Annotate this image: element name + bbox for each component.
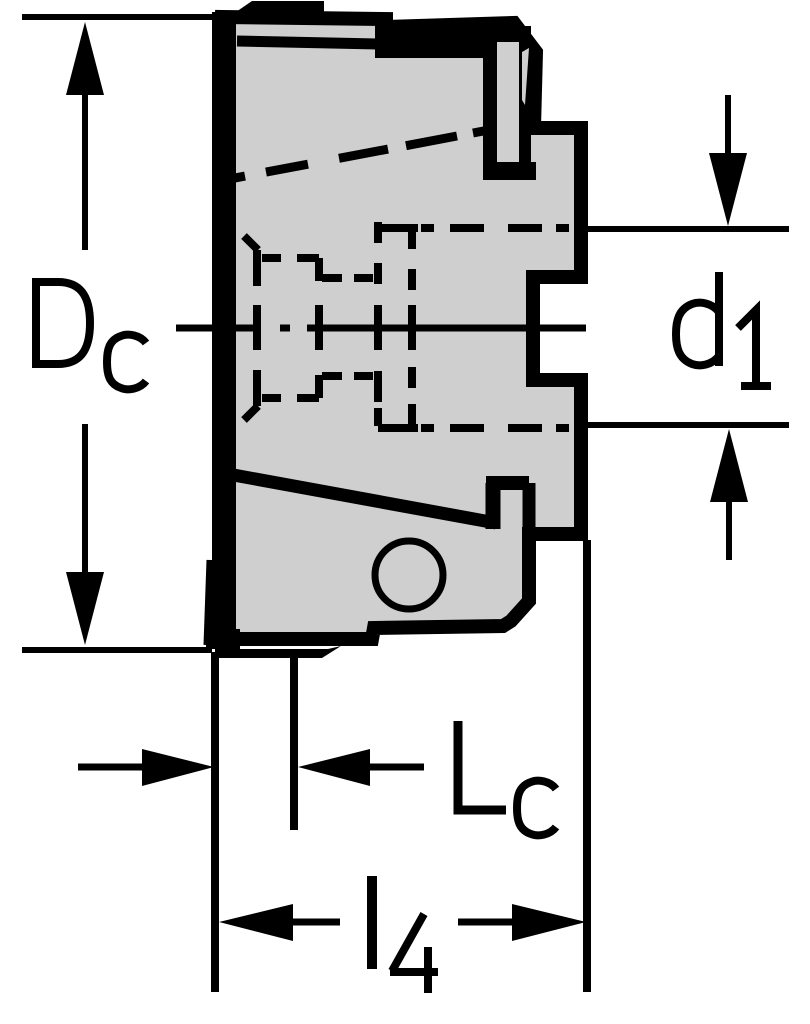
cap gray sliver bbox=[522, 48, 529, 105]
cutter body outline (gray silhouette) bbox=[220, 17, 581, 639]
hidden bore: horiz y398 bbox=[262, 394, 319, 402]
top-right block (solid black above slot) bbox=[375, 22, 497, 58]
Lc dimension line right part with arrow bbox=[364, 764, 424, 771]
hidden bore: horiz y228 bbox=[378, 224, 569, 232]
slot top close bbox=[495, 24, 519, 42]
hidden bore: horiz y258 bbox=[262, 254, 319, 262]
insert tab: top bbox=[486, 476, 529, 490]
centerline left segment bbox=[176, 325, 256, 332]
hidden bore: vertical x412 bbox=[408, 228, 416, 427]
d1 arrow up (below lower line) bbox=[726, 500, 732, 560]
insert tab: right wall (continues as lower right edge) bbox=[523, 483, 536, 538]
hidden bore: vertical x257 bbox=[253, 250, 261, 406]
Dc dimension vertical line upper bbox=[82, 90, 88, 250]
centerline dot bbox=[280, 325, 290, 332]
hidden bore: horiz y425 bbox=[378, 424, 569, 432]
Dc dimension vertical line lower bbox=[82, 424, 88, 580]
insert strip protruding below bottom edge bbox=[215, 646, 341, 658]
label Dc bbox=[32, 282, 146, 389]
hidden line: long dashed slant bbox=[225, 130, 489, 180]
slot interior gray strip bbox=[497, 42, 519, 159]
Dc top dimension line bbox=[22, 14, 213, 20]
label d1 bbox=[676, 272, 771, 386]
gash slanted line bbox=[228, 474, 496, 523]
insert tab: left wall bbox=[486, 483, 501, 529]
hidden bore: chamfer dash upper bbox=[244, 236, 258, 250]
d1 arrow down (above upper line) bbox=[725, 95, 731, 160]
slot bottom bbox=[483, 162, 536, 180]
hidden bore: horiz y376 bbox=[322, 372, 373, 380]
hidden bore: chamfer dash lower bbox=[244, 406, 258, 420]
hidden bore: vertical x378 bbox=[374, 222, 382, 426]
Lc dimension line left part with arrow bbox=[78, 764, 146, 771]
Dc arrow down bbox=[66, 572, 104, 645]
l4 dimension line right part with arrow bbox=[458, 919, 514, 926]
extension line right (x586) bbox=[583, 540, 591, 992]
top second edge line bbox=[237, 41, 378, 44]
extension line middle (x294) bbox=[290, 658, 298, 830]
l4 dimension line left part with arrow bbox=[290, 919, 340, 926]
extension line left (x218) bbox=[211, 652, 219, 992]
label Lc bbox=[458, 721, 556, 835]
screw hole circle bbox=[375, 541, 443, 609]
slot right wall / cap left bbox=[519, 26, 531, 172]
Dc arrow up bbox=[66, 22, 104, 95]
insert tip protruding at top bbox=[233, 1, 324, 16]
Dc bottom dimension line bbox=[22, 647, 212, 653]
bottom-left corner flare bbox=[208, 560, 211, 645]
d1 upper dimension line bbox=[588, 226, 789, 232]
centerline main segment bbox=[307, 325, 586, 332]
left edge thickening bbox=[212, 12, 236, 638]
d1 lower dimension line bbox=[588, 422, 789, 428]
label l4 bbox=[372, 876, 438, 993]
hidden bore: horiz y278 bbox=[322, 274, 373, 282]
hidden bore: vertical x319 bbox=[315, 258, 323, 398]
slot left wall bbox=[483, 22, 497, 172]
